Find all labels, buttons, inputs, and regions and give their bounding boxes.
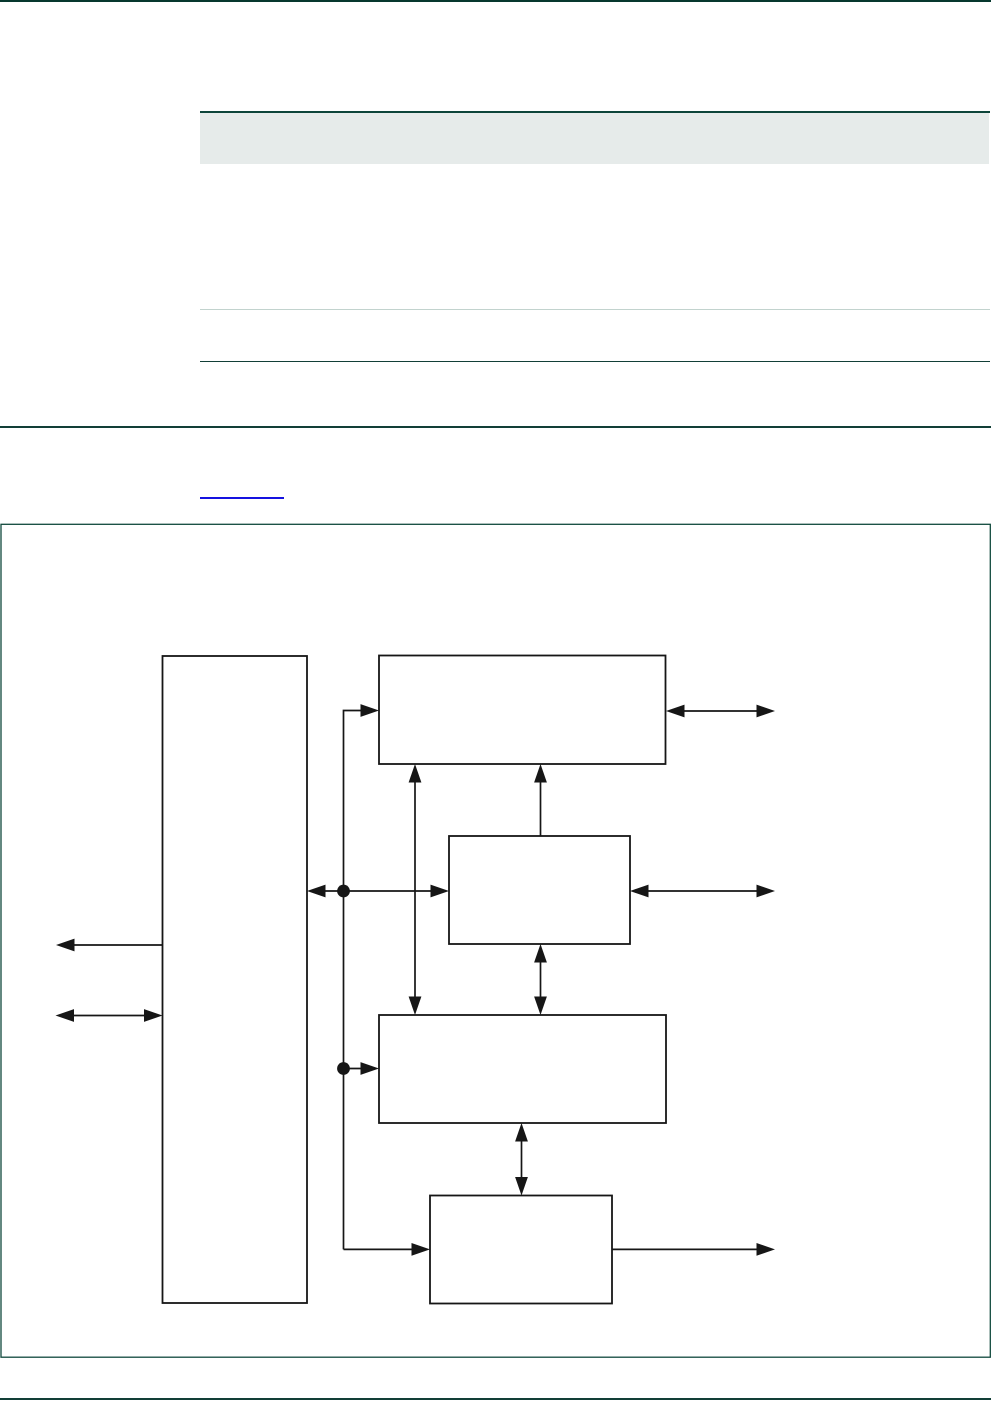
wire: bidirectional port left of block B1 at y=1015.5 <box>73 1015 146 1017</box>
arrow up into block B4 bottom edge <box>515 1123 528 1142</box>
bottom footer rule <box>0 1398 991 1399</box>
arrow into block B3 right edge <box>630 885 649 898</box>
arrow into block B2 left edge <box>361 704 380 717</box>
junction dot on bus at y=1068.5 <box>337 1062 350 1075</box>
wire: from B3 top up into B2 at x=540.5 <box>540 781 542 836</box>
junction dot on bus at y=891 <box>337 885 350 898</box>
arrow into block B1 right edge <box>307 885 326 898</box>
arrow up into block B2 bottom edge from B3 <box>534 764 547 783</box>
block B5 (bottom) <box>430 1196 612 1304</box>
arrow into block B2 right edge <box>666 705 685 718</box>
wire: corner from main bus up, stub toward block B2 <box>344 711 362 892</box>
arrow into block B3 left edge <box>431 885 450 898</box>
arrow down into block B5 top edge <box>515 1177 528 1196</box>
dark separator rule <box>200 361 990 362</box>
arrow outward right at x=775 (B5 output) <box>757 1243 776 1256</box>
wire: bidirectional vertical B4 to B5 at x=521.5 <box>521 1140 523 1179</box>
wire: stub from bus to block B4 <box>344 1068 362 1070</box>
block B4 (lower wide) <box>379 1015 666 1123</box>
grey header box <box>200 113 989 165</box>
wire: bidirectional port right of block B3 at y=891 <box>647 890 758 892</box>
wire: bidirectional vertical B2 to B4 at x=415 <box>414 781 416 998</box>
wire: bidirectional port right of block B2 at y=711 <box>683 710 758 712</box>
wire: bidirectional vertical B3 to B4 at x=540.5 <box>540 961 542 998</box>
arrow outward right at x=775 (B3 port) <box>757 885 776 898</box>
wire: output port right of block B5 at y=1249.4 <box>612 1248 758 1250</box>
wire: bottom corner of bus toward block B5 <box>344 1248 413 1250</box>
wire: bidirectional bus B1 to B3 at y=891 <box>324 890 432 892</box>
arrow outward left at x=55.5 <box>56 1009 75 1022</box>
figure frame <box>1 524 990 1357</box>
blue link underline <box>200 497 284 499</box>
arrow outward right at x=775 (B2 port) <box>757 705 776 718</box>
arrow up into block B2 bottom edge <box>409 764 422 783</box>
arrow into block B5 left edge <box>412 1243 431 1256</box>
light separator rule <box>200 309 990 310</box>
arrow up into block B3 bottom edge <box>534 944 547 963</box>
full-width rule <box>0 426 991 427</box>
block B1 (tall left) <box>163 656 308 1303</box>
block B3 (middle) <box>449 836 630 944</box>
wire: output port left of block B1 at y=945 <box>73 944 163 946</box>
grey header box top rule <box>200 111 990 112</box>
arrow down into block B4 top edge from B3 <box>534 997 547 1016</box>
wire: main vertical bus x=343.5 <box>343 891 345 1249</box>
arrow into block B1 left edge <box>144 1009 163 1022</box>
header top rule <box>0 0 991 2</box>
arrow outward left at x=56 <box>56 939 75 952</box>
arrow into block B4 left edge <box>361 1062 380 1075</box>
block B2 (top right) <box>379 656 666 765</box>
arrow down into block B4 top edge <box>409 997 422 1016</box>
